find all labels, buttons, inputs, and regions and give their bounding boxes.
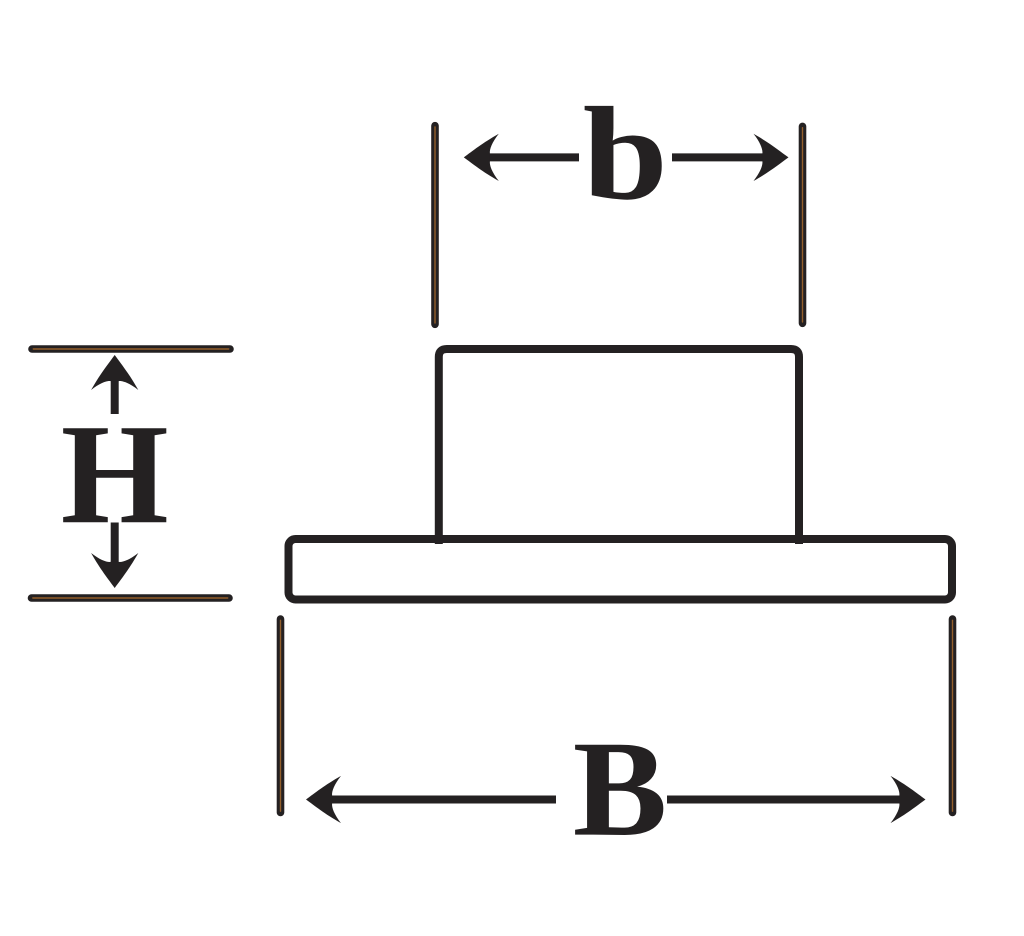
dimension B: left arrow [306, 776, 556, 823]
label b [583, 80, 668, 228]
extension line top-left (vertical, orange core) [431, 126, 439, 325]
label B [573, 714, 667, 866]
top web rectangle (b wide), open at bottom [439, 349, 799, 544]
svg-text:b: b [583, 80, 668, 228]
extension line H-bottom (horizontal, orange core) [32, 594, 230, 602]
extension line B-left (vertical, orange core) [277, 619, 285, 813]
base flange rectangle (B wide) [289, 539, 953, 600]
dimension B: right arrow [667, 776, 926, 823]
dimension b: left arrow [464, 134, 579, 181]
dimension H: up arrow [91, 355, 138, 414]
svg-text:H: H [61, 394, 169, 554]
dimension b: right arrow [672, 134, 789, 181]
extension line H-top (horizontal, orange core) [32, 345, 230, 353]
extension line B-right (vertical, orange core) [949, 619, 957, 813]
label H [61, 394, 169, 554]
extension line top-right (vertical, orange core) [799, 126, 807, 323]
svg-text:B: B [573, 714, 667, 866]
dimension H: down arrow [91, 523, 138, 589]
